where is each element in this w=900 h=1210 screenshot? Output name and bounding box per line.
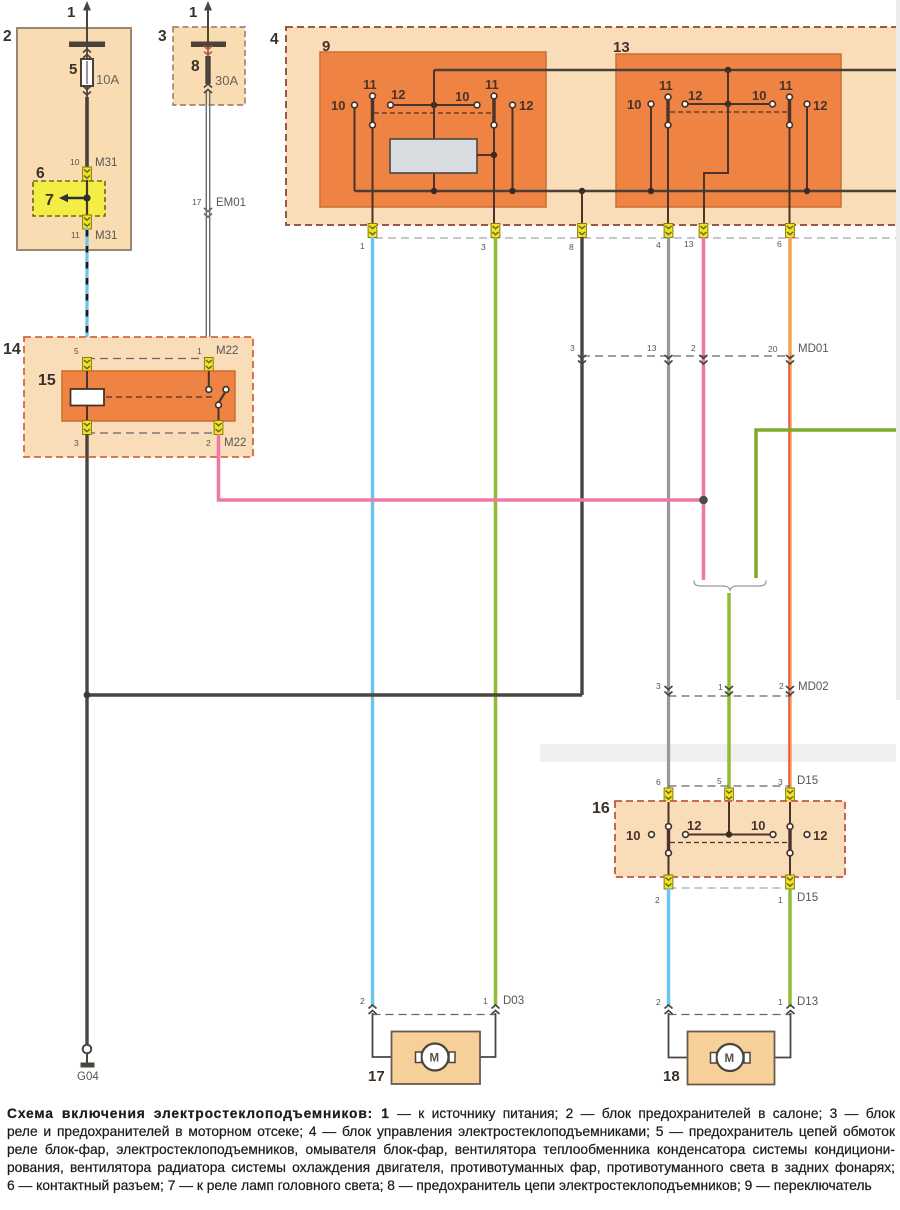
svg-text:EM01: EM01: [216, 197, 246, 209]
wire pin 8 inside block 4: [581, 191, 583, 224]
svg-text:10: 10: [331, 98, 345, 113]
connector M22 top row: [87, 345, 238, 359]
svg-text:13: 13: [684, 239, 694, 249]
contact 12 left (block 16): [683, 818, 702, 837]
fuse F5 10A: [69, 47, 119, 98]
svg-text:2: 2: [3, 28, 12, 45]
window motor block 17: [368, 1032, 480, 1086]
switch block 16: [592, 800, 845, 877]
contact 10 left (block 9): [331, 98, 357, 191]
connector D03 pin 2: [360, 996, 377, 1014]
svg-text:4: 4: [270, 31, 279, 48]
wire motor 17 loop: [373, 1013, 496, 1057]
svg-text:10A: 10A: [96, 72, 119, 87]
wire relay to contact 11 right: [477, 154, 494, 156]
contact 12 right (block 13): [804, 98, 827, 191]
wire light blue (pin 1 to motor 17): [371, 237, 375, 1006]
mechanical link (block 13): [670, 111, 788, 113]
svg-text:13: 13: [613, 39, 630, 56]
contact connector block 6: [33, 165, 105, 216]
connector pad pin 13 (block 4): [684, 224, 708, 250]
wire 12-10 link (block 9): [394, 104, 475, 106]
svg-text:M22: M22: [224, 437, 246, 449]
connector MD01 pin 20: [768, 344, 794, 364]
contact 10 right (block 9): [455, 89, 480, 108]
wire green (to motor 18): [788, 888, 792, 1006]
connector D15 pin 6: [656, 777, 673, 802]
wire gray (pin 4 down to D15): [667, 237, 670, 790]
contact 11 right switch (block 13): [779, 78, 793, 224]
svg-text:6: 6: [656, 777, 661, 787]
fuse box block 2: [3, 28, 131, 250]
connector D15 top row: [669, 775, 819, 787]
connector D13 pin 2: [656, 997, 673, 1014]
svg-text:2: 2: [691, 343, 696, 353]
power feed arrow 1 (block 3): [189, 1, 212, 43]
svg-text:2: 2: [360, 996, 365, 1006]
svg-text:1: 1: [67, 4, 75, 21]
arrow 7 to headlamp relay: [45, 192, 87, 209]
svg-text:M31: M31: [95, 230, 117, 242]
node (block 13 bottom left): [648, 188, 654, 194]
svg-text:10: 10: [751, 818, 765, 833]
wire through block 6: [86, 180, 88, 216]
svg-text:5: 5: [74, 346, 79, 356]
svg-text:D13: D13: [797, 996, 818, 1008]
fuse box block 3: [158, 27, 245, 105]
wire 12-10 link (block 13): [688, 103, 770, 105]
control unit block 4: [270, 27, 900, 225]
node (pink junction): [699, 496, 708, 505]
contact 12 right (block 9): [510, 98, 534, 191]
node (relay output, block 9): [491, 152, 497, 158]
svg-text:M31: M31: [95, 157, 117, 169]
contact 10 left (block 13): [627, 97, 654, 191]
contact 10 left (block 16): [626, 828, 654, 843]
svg-text:2: 2: [206, 438, 211, 448]
svg-text:MD02: MD02: [798, 681, 829, 693]
svg-text:16: 16: [592, 800, 610, 817]
wire center stepped (block 13): [704, 70, 728, 224]
svg-text:3: 3: [778, 777, 783, 787]
svg-text:5: 5: [69, 61, 77, 78]
wire orange/red (MD01 to D15): [789, 362, 791, 790]
svg-text:3: 3: [481, 242, 486, 252]
svg-text:7: 7: [45, 192, 54, 209]
connector D13 row: [669, 996, 819, 1015]
connector MD01 row: [582, 343, 829, 356]
splice brace (pink+green merge): [694, 581, 766, 591]
bus bar (block 3): [191, 42, 226, 48]
wire EM01 double-line: [206, 92, 209, 357]
wire bottom bus (to edge): [355, 190, 898, 192]
connector MD01 pin 3: [570, 343, 586, 364]
svg-text:M22: M22: [216, 345, 238, 357]
contact 11 right switch (block 9): [485, 77, 499, 224]
wire dark (pin 8 down): [580, 237, 583, 695]
connector M22 pin 1: [197, 346, 213, 372]
wire coil vertical: [86, 371, 88, 421]
svg-text:MD01: MD01: [798, 343, 829, 355]
svg-text:15: 15: [38, 372, 56, 389]
node (block 9 bottom left): [431, 188, 437, 194]
wire pink (pin 13 down): [702, 237, 706, 580]
svg-text:17: 17: [368, 1068, 385, 1085]
svg-text:6: 6: [36, 165, 45, 182]
scan shadow band: [540, 744, 896, 762]
svg-text:1: 1: [189, 4, 197, 21]
wire pin 5 into block 16: [728, 802, 730, 835]
svg-text:1: 1: [360, 241, 365, 251]
connector D15 bottom row: [669, 888, 819, 904]
svg-text:10: 10: [627, 97, 641, 112]
ground G04: [77, 1045, 99, 1083]
wire orange (pin 6 down to MD01): [788, 237, 792, 362]
svg-text:2: 2: [656, 997, 661, 1007]
svg-text:11: 11: [485, 77, 499, 92]
connector D03 row: [373, 995, 525, 1015]
connector D15 pin 3: [778, 777, 794, 802]
svg-text:12: 12: [813, 98, 827, 113]
bus bar (block 2): [69, 42, 105, 48]
svg-text:3: 3: [74, 438, 79, 448]
contact 10 right (block 13): [752, 88, 775, 107]
node (block 9 bottom right): [509, 188, 515, 194]
svg-text:1: 1: [778, 997, 783, 1007]
svg-text:9: 9: [322, 38, 330, 55]
svg-text:D15: D15: [797, 892, 818, 904]
wire pink (relay pin 2 down and right): [219, 434, 704, 500]
svg-text:11: 11: [779, 78, 793, 93]
connector D03 pin 1: [483, 996, 500, 1014]
switch block 13: [613, 39, 841, 207]
switch block 9: [320, 38, 546, 207]
connector M31 pin 11: [71, 215, 117, 242]
relay box block 14: [3, 337, 253, 457]
svg-text:10: 10: [70, 157, 80, 167]
connector MD02 row: [669, 681, 829, 696]
node junction in block 6: [83, 194, 90, 201]
connector pad pin 1 (block 4): [360, 224, 377, 252]
svg-text:10: 10: [626, 828, 640, 843]
svg-text:3: 3: [570, 343, 575, 353]
contact 11 left switch (block 13): [659, 78, 673, 224]
connector D15 pin 5: [717, 776, 733, 802]
connector MD02 pin 2: [779, 681, 794, 695]
mechanical link (relay): [106, 396, 212, 398]
svg-text:8: 8: [191, 58, 200, 75]
connector M22 bottom row: [87, 433, 246, 449]
svg-text:10: 10: [752, 88, 766, 103]
svg-text:4: 4: [656, 240, 661, 250]
contact 11 left switch (block 9): [363, 77, 377, 224]
svg-text:1: 1: [483, 996, 488, 1006]
connector M22 pin 3: [74, 421, 91, 449]
control relay unit (gray box, block 9): [390, 139, 477, 173]
svg-text:3: 3: [656, 681, 661, 691]
connector pad pin 6 (block 4): [777, 224, 794, 250]
connector row below block 4: [375, 237, 896, 239]
wire top bus (to block 13 and edge): [434, 69, 897, 71]
svg-text:2: 2: [655, 895, 660, 905]
svg-text:M: M: [725, 1053, 735, 1065]
svg-text:8: 8: [569, 242, 574, 252]
svg-text:1: 1: [197, 346, 202, 356]
node (block 16 center): [726, 831, 732, 837]
switch right (block 16): [787, 802, 793, 875]
switch left (block 16): [666, 802, 672, 875]
connector pad pin 3 (block 4): [481, 224, 500, 253]
contact 12 left (block 13): [682, 88, 702, 107]
svg-text:11: 11: [363, 77, 377, 92]
contact 12 right (block 16): [804, 828, 827, 843]
relay block 15: [38, 371, 235, 421]
svg-text:1: 1: [718, 682, 723, 692]
svg-text:M: M: [430, 1053, 440, 1065]
connector M22 pin 5: [74, 346, 91, 372]
svg-text:12: 12: [813, 828, 827, 843]
motor M (18): [711, 1044, 751, 1071]
mechanical link (block 9): [374, 112, 492, 114]
connector D15 pin 2: [655, 875, 673, 905]
svg-text:18: 18: [663, 1068, 680, 1085]
motor M (17): [416, 1044, 456, 1071]
wire motor 18 loop: [669, 1013, 791, 1058]
connector MD02 pin 1: [718, 682, 733, 695]
node (bottom bus at pin 8 wire): [579, 188, 585, 194]
svg-text:17: 17: [192, 197, 202, 207]
wire dark (relay pin 3 to ground): [85, 434, 88, 1045]
connector EM01 pin 17: [192, 197, 246, 217]
svg-text:D03: D03: [503, 995, 524, 1007]
wire green merged down: [727, 593, 731, 790]
svg-text:12: 12: [519, 98, 533, 113]
relay switch contacts: [206, 371, 229, 421]
mechanical link (block 16): [670, 842, 788, 844]
wire light blue (to motor 18): [667, 888, 671, 1006]
connector pad pin 4 (block 4): [656, 224, 673, 251]
svg-text:30A: 30A: [215, 73, 238, 88]
svg-text:12: 12: [687, 818, 701, 833]
svg-text:5: 5: [717, 776, 722, 786]
svg-text:11: 11: [71, 230, 80, 240]
svg-text:3: 3: [158, 28, 167, 45]
node (block 13 center): [725, 101, 731, 107]
svg-text:12: 12: [688, 88, 702, 103]
svg-text:20: 20: [768, 344, 778, 354]
wire black/blue dashed to relay: [85, 228, 88, 357]
wire dark horizontal to ground stem: [87, 693, 582, 696]
node (ground bus junction): [84, 692, 91, 699]
connector D15 pin 1: [778, 875, 794, 905]
wire 12-10 link (block 16): [688, 834, 770, 836]
svg-text:1: 1: [778, 895, 783, 905]
node (top bus, block 13): [725, 67, 731, 73]
connector MD01 pin 2: [691, 343, 708, 364]
fuse F8 30A: [191, 46, 238, 93]
wire green from right edge: [756, 430, 897, 578]
wire center vertical (block 9): [433, 70, 435, 191]
window motor block 18: [663, 1032, 775, 1086]
svg-text:6: 6: [777, 239, 782, 249]
connector M31 pin 10: [70, 157, 117, 181]
svg-text:10: 10: [455, 89, 469, 104]
contact 10 right (block 16): [751, 818, 776, 837]
svg-text:11: 11: [659, 78, 673, 93]
wire green (pin 3 to motor 17): [494, 237, 498, 1006]
connector pad pin 8 (block 4): [569, 224, 586, 253]
connector MD01 pin 13: [647, 343, 673, 364]
svg-text:12: 12: [391, 87, 405, 102]
svg-text:14: 14: [3, 341, 21, 358]
connector MD02 pin 3: [656, 681, 673, 695]
svg-text:2: 2: [779, 681, 784, 691]
svg-text:D15: D15: [797, 775, 818, 787]
connector M22 pin 2: [206, 421, 223, 449]
wire fuse to pin 10: [85, 97, 89, 168]
node (block 13 bottom right): [804, 188, 810, 194]
svg-text:G04: G04: [77, 1071, 99, 1083]
relay coil: [71, 389, 105, 406]
connector D13 pin 1: [778, 997, 795, 1014]
page edge strip: [896, 0, 900, 700]
power feed arrow 1 (block 2): [67, 1, 91, 43]
svg-text:13: 13: [647, 343, 657, 353]
node (block 9 center top): [431, 102, 437, 108]
contact 12 left (block 9): [388, 87, 406, 108]
